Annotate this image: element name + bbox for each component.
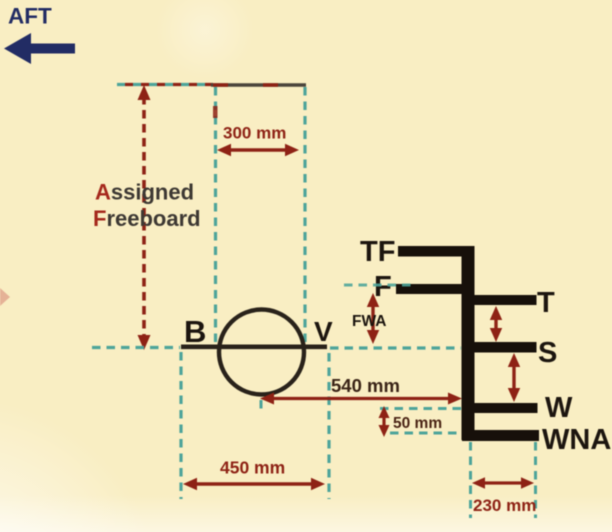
assigned freeboard arrow up [138,85,151,100]
waterline dashed teal right [330,346,461,349]
fresh-water line guide (teal) at F [344,284,413,287]
svg-text:540 mm: 540 mm [331,375,400,396]
dimension 50 mm arrow [379,406,390,437]
assigned freeboard arrow down [138,335,151,350]
svg-text:FWA: FWA [352,313,386,330]
TF bar [398,246,462,257]
red dash artifact on left guide [213,106,218,118]
red dash on deck line 2 [263,83,278,87]
svg-text:Freeboard: Freeboard [93,206,201,231]
svg-text:T: T [537,287,555,319]
comb vertical bar [462,246,475,440]
svg-text:Assigned: Assigned [95,180,194,205]
svg-text:WNA: WNA [542,424,611,456]
red dash on deck line 1 [213,83,228,87]
230mm left guide vertical [469,442,472,518]
arrow S to W [508,353,520,402]
vertical guide at deck-line left (teal) [214,87,217,344]
svg-text:W: W [545,392,573,424]
left 450mm guide vertical [179,352,182,499]
svg-text:50 mm: 50 mm [393,415,442,432]
svg-text:230 mm: 230 mm [473,496,536,515]
svg-text:TF: TF [360,236,395,268]
deck reference dashed line (teal) top [117,83,213,86]
dimension 450 mm arrow [183,478,325,490]
faint cropped pointer at left edge [0,288,10,306]
svg-text:B: B [184,314,206,349]
vertical guide at deck-line right (teal) [303,87,306,346]
waterline dashed teal left [92,346,180,349]
230mm right guide vertical [534,442,537,518]
right 450mm guide vertical [327,353,330,499]
svg-text:F: F [374,271,392,303]
WNA bar [462,430,539,441]
S bar [475,342,537,353]
svg-text:AFT: AFT [8,4,52,29]
FWA arrow [367,293,379,344]
dimension 300 mm arrow [217,144,299,156]
guide below disc (teal tick) [260,400,263,413]
T bar [475,295,537,305]
load line disc [219,310,304,395]
svg-text:V: V [314,316,333,347]
svg-text:300 mm: 300 mm [223,124,286,143]
assigned freeboard dashed red line [142,96,146,340]
dimension 230 mm arrow [472,477,534,489]
svg-text:450 mm: 450 mm [220,458,285,478]
deck reference dashed line (red alternate) top [125,83,213,86]
F bar [396,284,462,294]
W bar [475,403,538,413]
WNA level guide (teal) [390,432,461,435]
W level guide (teal) [380,407,461,410]
AFT direction arrow [4,33,75,64]
dimension 540 mm arrow [260,393,462,405]
arrow T to S [490,306,502,342]
svg-text:S: S [538,337,557,369]
deck line solid segment [211,83,306,87]
waterline solid [181,344,327,349]
